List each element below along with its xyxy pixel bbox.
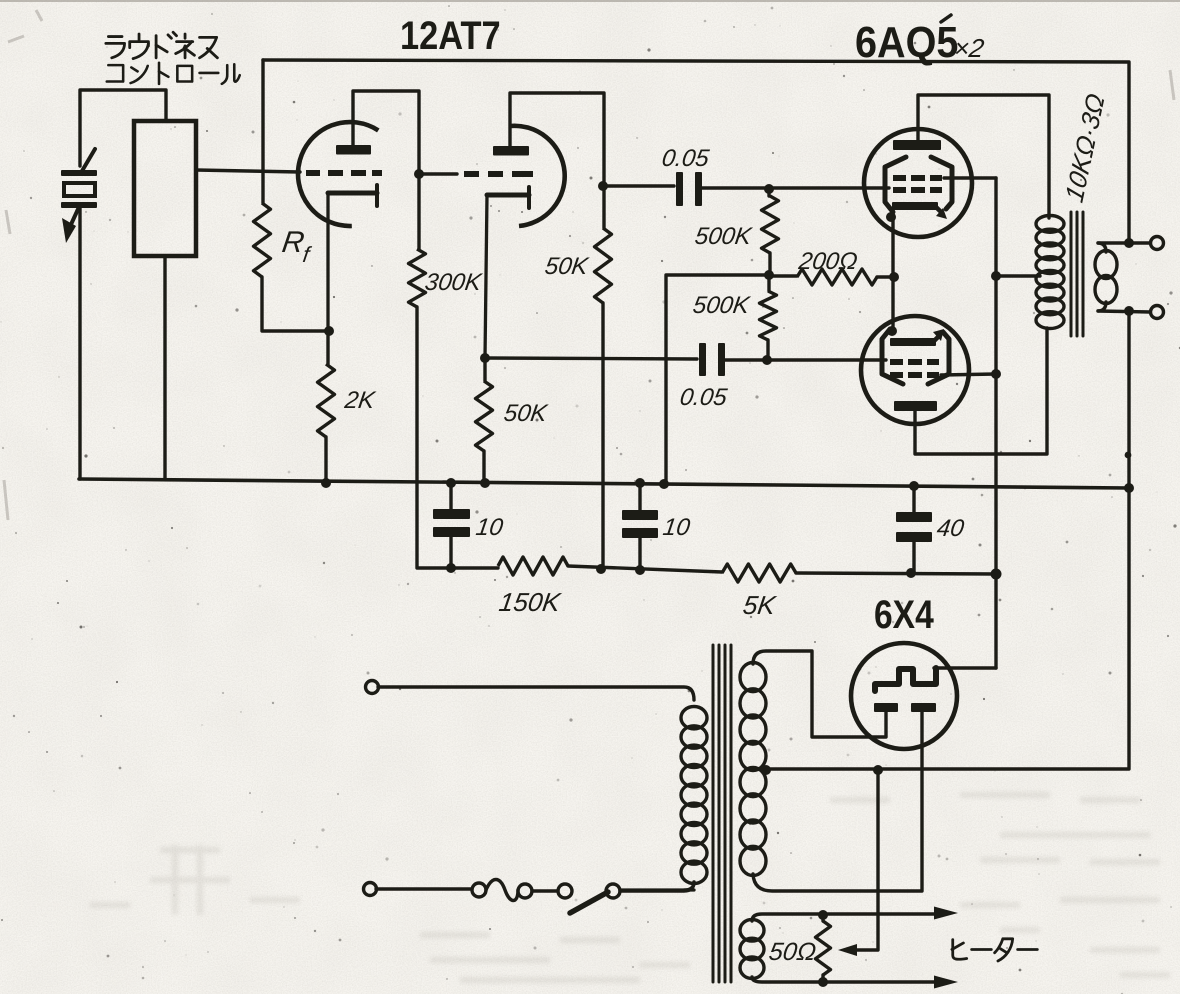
capacitor 0.05 upper coupling — [604, 184, 674, 187]
svg-text:2K: 2K — [342, 387, 377, 414]
resistor 2K cathode V1a — [324, 326, 334, 336]
svg-text:500K: 500K — [693, 223, 754, 250]
V3 control grid — [890, 359, 903, 365]
resistor 500K lower grid — [764, 270, 774, 280]
V2 cathode — [892, 202, 938, 210]
phono pickup PU — [80, 90, 166, 166]
svg-text:10: 10 — [661, 514, 692, 541]
hum balance wiper from ground — [848, 770, 878, 950]
svg-text:×2: ×2 — [952, 33, 986, 63]
svg-text:10: 10 — [474, 514, 505, 541]
svg-text:300K: 300K — [423, 269, 484, 296]
resistor 200 ohm cathode bias — [769, 274, 797, 277]
capacitor 0.05 lower coupling — [485, 358, 697, 359]
V1b grid — [464, 171, 479, 177]
svg-text:50K: 50K — [502, 400, 549, 427]
V4 cathode — [875, 668, 936, 691]
label 12AT7 — [400, 13, 501, 58]
V1b cathode — [487, 193, 529, 198]
wire node A to ground — [666, 275, 769, 484]
power transformer primary winding — [681, 707, 707, 729]
V1b plate — [493, 146, 529, 156]
V1a grid — [306, 170, 320, 176]
svg-text:150K: 150K — [497, 587, 563, 617]
triode V1a 12AT7 envelope — [298, 122, 378, 226]
svg-text:200Ω: 200Ω — [796, 248, 859, 275]
loudness control potentiometer box — [134, 121, 196, 256]
speaker terminals — [1098, 241, 1150, 244]
beam tetrode V3 6AQ5 lower envelope — [861, 316, 969, 424]
svg-text:50K: 50K — [543, 253, 590, 280]
ground bus wire — [79, 479, 1129, 488]
V4 right plate to HT winding bottom — [753, 712, 922, 891]
svg-text:50Ω: 50Ω — [767, 938, 818, 966]
switch blade — [570, 892, 608, 913]
triode V1b 12AT7 envelope — [510, 126, 565, 226]
power transformer HT secondary — [740, 663, 766, 692]
rectifier V4 6X4 envelope — [851, 643, 957, 749]
resistor 50K cathode V1b — [480, 353, 490, 363]
output transformer core — [1070, 212, 1073, 336]
label heater (katakana) — [952, 940, 967, 960]
V2 screen grid — [893, 175, 906, 181]
label 6X4 — [874, 592, 934, 636]
svg-text:6AQ5: 6AQ5 — [855, 17, 958, 66]
svg-text:40: 40 — [935, 515, 966, 542]
V4 cathode lead to B+ — [934, 666, 996, 669]
capacitor 10uF second — [635, 478, 645, 488]
wire V1a plate to V1b grid — [419, 172, 457, 175]
output transformer primary 10K ohm — [1036, 216, 1064, 233]
screen supply wire — [994, 178, 997, 668]
resistor 500K upper grid — [764, 184, 774, 194]
V4 plates — [874, 703, 898, 712]
resistor 50K plate load V1b — [598, 181, 608, 191]
svg-text:0.05: 0.05 — [678, 384, 729, 411]
resistor 300K plate load V1a — [414, 169, 424, 179]
svg-text:12AT7: 12AT7 — [400, 13, 501, 58]
heater winding 6.3V — [740, 920, 764, 942]
V3 plate — [894, 401, 937, 411]
V1a cathode — [328, 191, 377, 196]
V1a plate — [336, 145, 371, 155]
V3 screen grid — [890, 372, 903, 378]
resistor 5K filter — [722, 564, 796, 582]
power transformer core — [712, 645, 715, 982]
label loudness control (katakana) — [106, 37, 125, 58]
wire speaker ground to HT center tap — [766, 311, 1129, 769]
AC input lower lead, fuse and switch — [364, 883, 377, 896]
V2 control grid — [893, 187, 906, 193]
capacitor 10uF first — [446, 478, 456, 488]
beam tetrode V2 6AQ5 upper envelope — [864, 129, 972, 237]
V3 cathode — [890, 338, 936, 346]
fuse — [486, 880, 518, 901]
resistor Rf — [261, 60, 264, 203]
V4 left plate to HT winding top — [753, 651, 886, 737]
resistor 50 ohm hum balance — [821, 915, 824, 921]
label 6AQ5 x2 — [855, 17, 958, 66]
svg-text:6X4: 6X4 — [874, 592, 934, 636]
B+ filter node wires — [446, 563, 456, 573]
feedback wire from speaker to Rf — [263, 60, 1129, 243]
V2 plate — [893, 140, 941, 150]
svg-text:5K: 5K — [741, 590, 779, 620]
V3 beam plates — [882, 329, 903, 384]
V2 beam plates — [885, 157, 906, 212]
svg-text:500K: 500K — [691, 292, 752, 319]
output transformer secondary 3 ohm — [1095, 251, 1117, 279]
svg-text:0.05: 0.05 — [660, 145, 711, 172]
wire wiper to V1 grid — [196, 170, 300, 172]
resistor 150K filter — [498, 557, 568, 575]
capacitor 40uF — [909, 481, 919, 491]
